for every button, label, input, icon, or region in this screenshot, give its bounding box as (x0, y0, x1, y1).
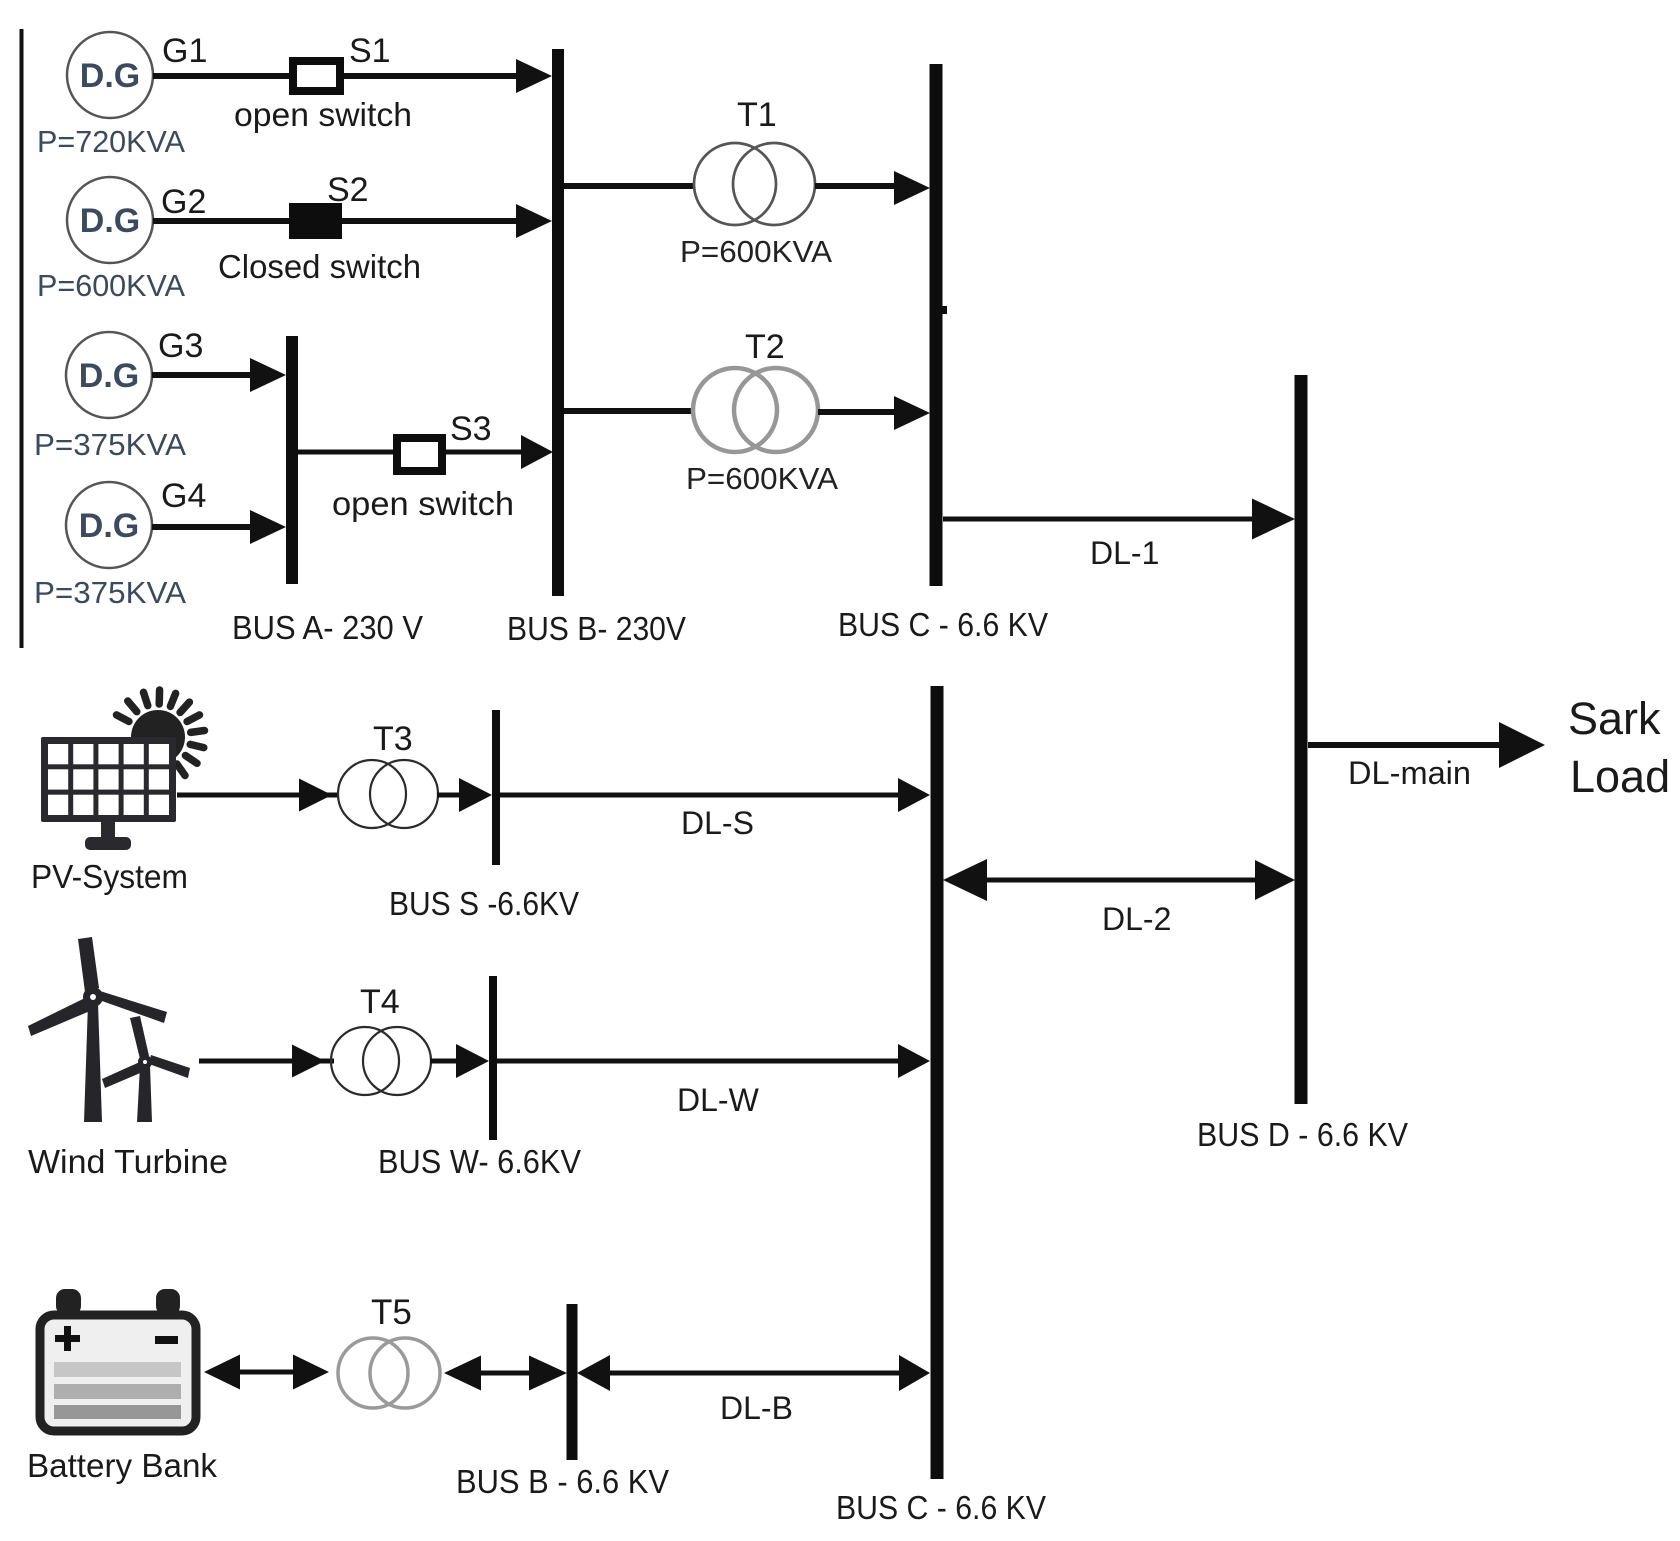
svg-text:BUS C - 6.6 KV: BUS C - 6.6 KV (838, 606, 1048, 643)
svg-text:G3: G3 (158, 327, 203, 365)
bus BUS D - 6.6 KV (1295, 375, 1308, 1104)
PV-System solar panel icon (41, 690, 205, 850)
wire T3 to BUS S (437, 793, 462, 798)
svg-text:D.G: D.G (80, 57, 140, 95)
wire DL-W BUS W to BUS C (497, 1059, 904, 1064)
wire DL-1 BUS C to BUS D (943, 517, 1256, 522)
switch S2 (closed) (289, 203, 342, 239)
wire S1 to BUS B (344, 73, 524, 79)
generator G4 (66, 482, 152, 568)
svg-text:open switch: open switch (332, 485, 514, 522)
generator G3 (66, 332, 152, 418)
svg-text:BUS D - 6.6 KV: BUS D - 6.6 KV (1197, 1116, 1408, 1153)
bus BUS W - 6.6KV (489, 976, 497, 1140)
svg-text:P=375KVA: P=375KVA (34, 427, 186, 462)
svg-text:Load: Load (1570, 751, 1670, 802)
svg-text:T2: T2 (745, 328, 785, 366)
wire battery to transformer T5 (bidirectional) (226, 1370, 308, 1375)
svg-text:S3: S3 (450, 410, 492, 448)
svg-text:Wind Turbine: Wind Turbine (28, 1143, 228, 1180)
svg-text:T1: T1 (737, 96, 777, 134)
svg-text:DL-2: DL-2 (1102, 901, 1171, 937)
svg-text:DL-1: DL-1 (1090, 535, 1159, 571)
svg-text:open switch: open switch (234, 96, 412, 133)
svg-text:P=600KVA: P=600KVA (37, 268, 185, 303)
svg-text:S2: S2 (327, 171, 369, 209)
svg-text:Battery Bank: Battery Bank (27, 1447, 217, 1484)
svg-text:G1: G1 (162, 32, 207, 70)
wire DL-B BUS B to BUS C (bidirectional) (600, 1371, 905, 1376)
svg-text:T5: T5 (371, 1293, 412, 1332)
wire DL-S BUS S to BUS C (500, 793, 904, 798)
svg-text:D.G: D.G (79, 357, 139, 395)
transformer T2 (693, 368, 777, 452)
svg-text:T3: T3 (373, 720, 413, 758)
node stub on BUS C (942, 306, 947, 314)
wire G4 to BUS A (152, 524, 260, 530)
bus BUS A-230V (286, 336, 298, 584)
Wind Turbine icon (28, 937, 190, 1122)
wire T5 to BUS B lower (bidirectional) (466, 1371, 545, 1376)
transformer T1 (694, 143, 776, 225)
svg-text:DL-main: DL-main (1348, 755, 1471, 791)
wire T1 to BUS C (815, 183, 896, 189)
svg-text:P=600KVA: P=600KVA (680, 234, 832, 269)
svg-text:DL-W: DL-W (677, 1082, 760, 1118)
wire G3 to BUS A (152, 372, 260, 378)
wire Wind to transformer T4 (199, 1059, 334, 1064)
svg-text:BUS W- 6.6KV: BUS W- 6.6KV (378, 1143, 581, 1180)
wire BUS A to switch S3 (298, 450, 397, 455)
svg-text:P=600KVA: P=600KVA (686, 461, 838, 496)
bus BUS B - 6.6 KV (lower) (567, 1304, 578, 1460)
generator G2 (67, 177, 153, 263)
wire left border line (20, 29, 24, 648)
svg-text:G4: G4 (161, 477, 206, 515)
svg-text:BUS S -6.6KV: BUS S -6.6KV (389, 885, 579, 922)
transformer T5 (338, 1338, 408, 1408)
bus BUS S - 6.6KV (492, 710, 500, 865)
wire T2 to BUS C (818, 409, 896, 415)
wire DL-main BUS D to Sark Load (1308, 742, 1502, 748)
wire BUS B to transformer T2 (564, 408, 693, 414)
svg-text:BUS B- 230V: BUS B- 230V (507, 610, 686, 647)
switch S1 (open) (293, 61, 340, 91)
switch S3 (open) (397, 438, 442, 471)
generator G1 (67, 32, 153, 118)
svg-text:P=720KVA: P=720KVA (37, 124, 185, 159)
transformer T4 (331, 1027, 399, 1095)
wire DL-2 between BUS C and BUS D (975, 878, 1262, 883)
svg-text:D.G: D.G (80, 202, 140, 240)
wire T4 to BUS W (430, 1059, 459, 1064)
svg-text:Closed switch: Closed switch (218, 248, 421, 285)
svg-text:BUS A- 230 V: BUS A- 230 V (232, 609, 423, 646)
wire PV to transformer T3 (177, 793, 338, 798)
svg-text:DL-B: DL-B (720, 1390, 793, 1426)
svg-text:D.G: D.G (79, 507, 139, 545)
wire G1 to switch S1 (153, 73, 293, 79)
wire S2 to BUS B (342, 218, 524, 224)
svg-text:BUS B - 6.6 KV: BUS B - 6.6 KV (456, 1463, 669, 1500)
transformer T3 (338, 760, 406, 828)
bus BUS C - 6.6 KV (top) (930, 64, 943, 586)
bus BUS C - 6.6 KV (lower) (931, 686, 944, 1479)
svg-text:BUS C - 6.6 KV: BUS C - 6.6 KV (836, 1489, 1046, 1526)
svg-text:T4: T4 (360, 983, 400, 1021)
Battery Bank icon (40, 1289, 196, 1431)
svg-text:Sark: Sark (1568, 693, 1661, 744)
wire BUS B to transformer T1 (564, 183, 694, 189)
wire S3 to BUS B (446, 450, 524, 455)
svg-text:G2: G2 (161, 183, 206, 221)
svg-text:PV-System: PV-System (31, 858, 188, 895)
svg-text:S1: S1 (349, 32, 391, 70)
svg-text:P=375KVA: P=375KVA (34, 575, 186, 610)
bus BUS B-230V (552, 49, 564, 596)
wire G2 to switch S2 (153, 218, 293, 224)
svg-text:DL-S: DL-S (681, 805, 754, 841)
